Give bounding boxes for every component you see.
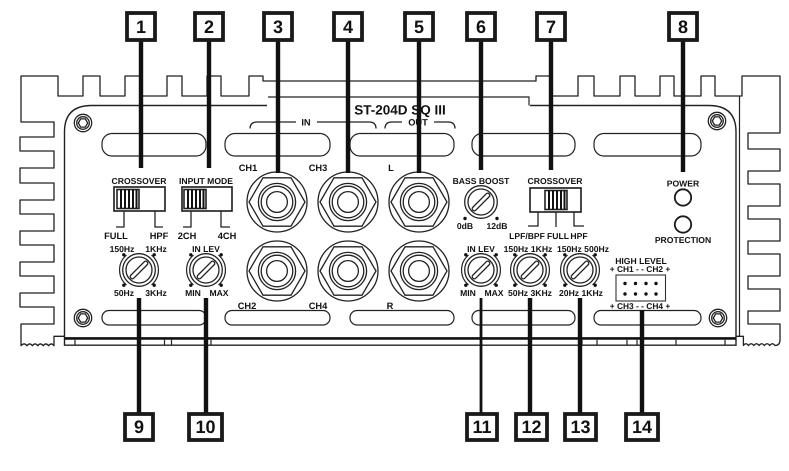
callout box 4 (334, 13, 362, 40)
top plate edge (268, 97, 529, 106)
svg-text:+ CH3 - - CH4 +: + CH3 - - CH4 + (610, 301, 671, 311)
svg-text:1: 1 (136, 17, 146, 37)
callout box 11 (467, 414, 497, 440)
screw top-right (708, 112, 725, 129)
svg-text:5: 5 (414, 17, 424, 37)
RCA jack CH2 (247, 241, 307, 301)
svg-text:CH3: CH3 (309, 163, 328, 173)
svg-text:150Hz: 150Hz (110, 244, 135, 254)
callout box 3 (264, 13, 292, 40)
svg-text:150Hz 500Hz: 150Hz 500Hz (557, 244, 609, 254)
svg-text:FULL: FULL (547, 231, 569, 241)
svg-text:FULL: FULL (104, 231, 128, 241)
screw bottom-right (709, 309, 726, 326)
callout line 11 (480, 298, 483, 414)
svg-text:IN LEV: IN LEV (192, 244, 220, 254)
bass boost knob (453, 176, 511, 231)
bottom vent slots (102, 311, 701, 326)
callout box 10 (189, 414, 222, 440)
knob 13 rear freq (557, 244, 609, 298)
svg-text:MAX: MAX (209, 288, 228, 298)
callout box 1 (127, 13, 155, 40)
svg-text:LPF/BPF: LPF/BPF (509, 231, 545, 241)
knob 12 front freq (504, 244, 553, 298)
RCA jack CH3 (318, 172, 378, 232)
svg-text:CROSSOVER: CROSSOVER (112, 176, 168, 186)
callout box 9 (125, 414, 153, 440)
svg-text:50Hz 3KHz: 50Hz 3KHz (508, 288, 552, 298)
callout box 12 (516, 414, 547, 440)
svg-text:1KHz: 1KHz (145, 244, 167, 254)
callout line 1 (139, 40, 143, 168)
callout line 10 (204, 298, 208, 414)
svg-text:7: 7 (546, 17, 556, 37)
svg-text:6: 6 (476, 17, 486, 37)
RCA jack L (389, 172, 449, 232)
RCA jack CH1 (247, 172, 307, 232)
screw bottom-left (74, 309, 91, 326)
svg-text:MAX: MAX (484, 288, 503, 298)
svg-text:IN LEV: IN LEV (467, 244, 495, 254)
svg-text:HPF: HPF (150, 231, 169, 241)
svg-text:CROSSOVER: CROSSOVER (528, 176, 584, 186)
svg-text:20Hz 1KHz: 20Hz 1KHz (559, 288, 603, 298)
knob 10 in level left (185, 244, 229, 298)
panel bottom thick line (65, 337, 737, 340)
callout line 9 (137, 298, 141, 414)
callout line 13 (578, 298, 582, 414)
callout box 8 (669, 13, 697, 40)
callout box 2 (195, 13, 223, 40)
top vent slots (102, 134, 701, 157)
callout line 4 (346, 40, 350, 173)
svg-text:4CH: 4CH (218, 231, 237, 241)
svg-text:14: 14 (632, 417, 652, 437)
svg-text:PROTECTION: PROTECTION (655, 235, 711, 245)
front panel (65, 106, 737, 346)
RCA jack CH4 (318, 241, 378, 301)
high level connector (610, 256, 671, 311)
callout line 5 (417, 40, 421, 173)
callout box 7 (537, 13, 565, 40)
svg-text:POWER: POWER (667, 179, 700, 189)
svg-text:BASS BOOST: BASS BOOST (453, 176, 511, 186)
callout box 5 (405, 13, 433, 40)
svg-text:12dB: 12dB (486, 221, 507, 231)
callout line 14 (640, 310, 644, 414)
svg-text:3KHz: 3KHz (145, 288, 167, 298)
svg-text:+ CH1 - - CH2 +: + CH1 - - CH2 + (610, 264, 671, 274)
callout line 3 (276, 40, 280, 173)
svg-text:2CH: 2CH (178, 231, 197, 241)
svg-text:CH1: CH1 (239, 163, 258, 173)
protection LED (675, 216, 691, 232)
svg-text:MIN: MIN (185, 288, 201, 298)
svg-text:12: 12 (521, 417, 541, 437)
svg-text:2: 2 (204, 17, 214, 37)
IN bracket (250, 122, 376, 129)
svg-text:9: 9 (134, 417, 144, 437)
svg-text:3: 3 (273, 17, 283, 37)
svg-text:R: R (387, 301, 394, 311)
heatsink body outline (20, 76, 780, 346)
body right edge line (739, 96, 741, 336)
svg-text:CH2: CH2 (238, 301, 257, 311)
callout box 13 (565, 414, 596, 440)
svg-text:HPF: HPF (570, 231, 587, 241)
svg-text:8: 8 (678, 17, 688, 37)
top plate cover (267, 99, 530, 111)
svg-text:INPUT MODE: INPUT MODE (179, 176, 233, 186)
callout line 7 (549, 40, 553, 170)
callout box 6 (467, 13, 495, 40)
svg-text:10: 10 (195, 417, 215, 437)
svg-text:ST-204D SQ III: ST-204D SQ III (354, 103, 446, 118)
knob 11 in level right (460, 244, 504, 298)
knob 9 crossover freq (110, 244, 167, 298)
screw top-left (74, 114, 91, 131)
svg-text:0dB: 0dB (457, 221, 473, 231)
svg-text:13: 13 (570, 417, 590, 437)
svg-text:CH4: CH4 (309, 301, 328, 311)
svg-text:150Hz 1KHz: 150Hz 1KHz (504, 244, 553, 254)
svg-text:4: 4 (343, 17, 353, 37)
svg-text:11: 11 (472, 417, 491, 437)
callout line 8 (681, 40, 685, 172)
callout box 14 (626, 414, 658, 440)
bottom bar ticks (75, 340, 725, 345)
svg-text:50Hz: 50Hz (114, 288, 134, 298)
OUT bracket (385, 122, 455, 129)
RCA jack R (389, 241, 449, 301)
callout line 2 (207, 40, 211, 168)
callout line 12 (528, 298, 532, 414)
svg-text:IN: IN (301, 118, 311, 128)
svg-text:MIN: MIN (460, 288, 476, 298)
callout line 6 (479, 40, 483, 170)
svg-text:L: L (388, 163, 394, 173)
